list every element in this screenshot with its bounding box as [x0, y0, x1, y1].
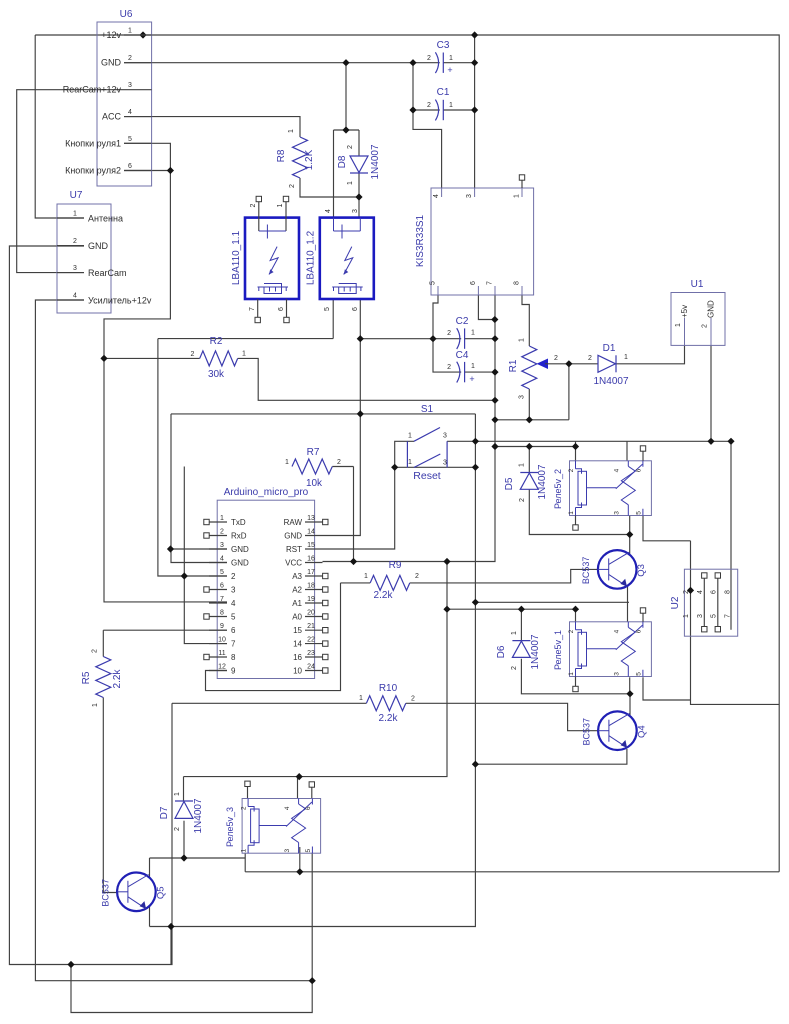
svg-text:3: 3 [519, 395, 526, 399]
svg-text:16: 16 [307, 556, 315, 563]
resistor R8 [276, 129, 315, 188]
wire relay3 pin3 lead [299, 847, 301, 872]
svg-text:3: 3 [697, 614, 704, 618]
svg-text:Arduino_micro_pro: Arduino_micro_pro [224, 487, 309, 498]
wire GND row above Arduino [171, 413, 475, 415]
wire U7 pin4 to relay3 pin5 row [35, 300, 312, 981]
svg-text:2: 2 [588, 355, 592, 362]
svg-text:12: 12 [218, 664, 226, 671]
svg-text:GND: GND [231, 559, 249, 568]
wire +5v rail [495, 446, 576, 448]
wire R5 pin1 to Q5 base [103, 698, 117, 893]
junction node (170.5,549.0) [167, 545, 174, 552]
svg-text:18: 18 [307, 583, 315, 590]
svg-text:+: + [469, 374, 474, 384]
svg-text:1: 1 [514, 194, 521, 198]
junction node (475.4,467.3) [472, 464, 479, 471]
svg-text:5: 5 [305, 849, 312, 853]
wire relay2 pin4 lead [626, 441, 628, 461]
svg-text:2: 2 [289, 184, 296, 188]
resistor R7 [285, 447, 341, 489]
svg-text:6: 6 [231, 626, 236, 635]
svg-text:2: 2 [519, 498, 526, 502]
svg-text:5: 5 [635, 511, 642, 515]
svg-text:C1: C1 [437, 87, 450, 98]
wire R8 pin2 to D8 pin1 node [300, 178, 359, 197]
svg-text:Кнопки руля2: Кнопки руля2 [65, 166, 121, 176]
svg-text:R9: R9 [389, 560, 402, 571]
wire +12v bus from U6 pin1 along top and right border [35, 35, 779, 872]
svg-text:1: 1 [347, 181, 354, 185]
svg-text:RAW: RAW [284, 518, 303, 527]
svg-text:D6: D6 [496, 645, 507, 658]
wire R7 pin2 lead [332, 466, 353, 468]
svg-text:2.2k: 2.2k [379, 713, 399, 724]
svg-text:1: 1 [174, 792, 181, 796]
switch S1 Reset [407, 404, 447, 482]
svg-text:3: 3 [614, 511, 621, 515]
wire row to LBA110_1.2 pin5 [158, 338, 333, 340]
wire to C2 pin2 [360, 338, 461, 340]
junction node (494.8,319.5) [491, 316, 498, 323]
wire D5 pin1 lead [528, 447, 530, 473]
connector U1 [671, 279, 725, 345]
connector U2 [670, 569, 738, 636]
wire GND drop to D8 branch [345, 63, 347, 130]
svg-text:1N4007: 1N4007 [530, 634, 541, 669]
junction node (474.6,35.0) [471, 31, 478, 38]
svg-text:GND: GND [231, 545, 249, 554]
wire to D1 pin2 [569, 363, 598, 365]
svg-text:1: 1 [92, 703, 99, 707]
svg-text:6: 6 [352, 307, 359, 311]
svg-text:1: 1 [408, 433, 412, 440]
svg-text:2: 2 [427, 55, 431, 62]
svg-text:14: 14 [293, 640, 302, 649]
wire relay3 pin1 lead [244, 853, 246, 872]
wire to LBA110_1.2 pin4 [333, 130, 335, 218]
relay Rele5v_3 pin2 square [245, 781, 250, 786]
svg-text:4: 4 [325, 209, 332, 213]
wire relay1 pin2 lead [575, 609, 577, 622]
junction node (71,964.5) [67, 961, 74, 968]
junction node (495,400.3) [491, 397, 498, 404]
svg-text:GND: GND [707, 300, 716, 318]
wire C2 pin1 to spine [465, 338, 495, 340]
svg-text:Кнопки руля1: Кнопки руля1 [65, 138, 121, 148]
svg-text:3: 3 [220, 542, 224, 549]
svg-text:Реле5v_2: Реле5v_2 [553, 469, 563, 509]
junction node (529.3,446.5) [526, 443, 533, 450]
svg-text:R7: R7 [307, 447, 320, 458]
svg-text:2: 2 [447, 364, 451, 371]
transistor Q4 BC537 [581, 711, 647, 750]
wire RearCam U6 pin3 to U7 pin3 [17, 90, 124, 273]
svg-text:1: 1 [364, 573, 368, 580]
svg-text:7: 7 [487, 281, 494, 285]
junction node (629.7,534.5) [626, 531, 633, 538]
wire D5 pin2 to relay2 pin3 node [529, 489, 629, 534]
svg-text:D1: D1 [603, 343, 616, 354]
svg-text:6: 6 [635, 629, 642, 633]
svg-text:1N4007: 1N4007 [537, 464, 548, 499]
wire Q4 emitter to spine [475, 749, 627, 764]
wire Q3 emitter row to spine [475, 601, 629, 603]
wire to Arduino pin3 GND [171, 548, 228, 550]
svg-text:2: 2 [568, 468, 575, 472]
svg-text:5: 5 [128, 136, 132, 143]
svg-text:2: 2 [702, 324, 709, 328]
wire S1 bottom row [395, 466, 476, 468]
relay Rele5v_3 pin6 square [309, 782, 314, 787]
svg-text:4: 4 [284, 806, 291, 810]
wire Q3 collector lead [629, 535, 631, 556]
svg-text:1.2K: 1.2K [304, 149, 315, 170]
svg-text:1N4007: 1N4007 [193, 798, 204, 833]
svg-text:BC537: BC537 [581, 718, 591, 746]
junction node (475.4,764.2) [472, 761, 479, 768]
svg-text:A1: A1 [292, 599, 302, 608]
junction node (447,609.2) [443, 606, 450, 613]
svg-text:U6: U6 [120, 9, 133, 20]
junction node (171,926.5) [167, 923, 174, 930]
wire Arduino pin12 to R9 pin1 [206, 583, 341, 691]
wire R10 pin2 to Q4 base [406, 703, 598, 730]
wire D8 pin2 lead [358, 130, 360, 156]
junction node (575.5,609.2) [572, 606, 579, 613]
svg-text:3: 3 [443, 460, 447, 467]
svg-text:1: 1 [242, 351, 246, 358]
svg-text:1: 1 [277, 203, 284, 207]
junction node (495,372.1) [491, 369, 498, 376]
svg-text:2: 2 [231, 572, 236, 581]
junction node (711,441.3) [707, 438, 714, 445]
svg-text:1: 1 [408, 459, 412, 466]
svg-text:1: 1 [128, 28, 132, 35]
svg-text:3: 3 [614, 672, 621, 676]
svg-text:8: 8 [220, 610, 224, 617]
node junction D8 branch [342, 126, 349, 133]
svg-text:6: 6 [278, 307, 285, 311]
wire VCC drop to D7 row [184, 562, 448, 777]
svg-text:8: 8 [724, 590, 731, 594]
svg-text:Q5: Q5 [155, 886, 166, 899]
svg-text:1: 1 [568, 511, 575, 515]
wire D7 pin1 lead [183, 777, 185, 801]
junction node (184.3,576.0) [181, 572, 188, 579]
wire U6 pin5 net to Arduino pin7 [104, 143, 227, 602]
svg-text:R2: R2 [210, 336, 223, 347]
svg-text:2.2k: 2.2k [112, 669, 123, 689]
svg-text:30k: 30k [208, 369, 225, 380]
svg-text:3: 3 [443, 433, 447, 440]
svg-text:U7: U7 [70, 190, 83, 201]
svg-text:3: 3 [466, 194, 473, 198]
wire to C1 pin2 [413, 109, 440, 111]
svg-text:1: 1 [568, 672, 575, 676]
relay Rele5v_2 pin1 square [575, 516, 577, 526]
transistor Q3 BC537 [581, 550, 647, 589]
svg-text:2: 2 [415, 573, 419, 580]
wire Q5 collector row [150, 857, 246, 859]
junction node (475.4,441.3) [472, 438, 479, 445]
svg-text:2: 2 [128, 55, 132, 62]
relay Rele5v_2 [553, 461, 651, 516]
wire Q3 emitter to relay1 pin4 [627, 586, 629, 622]
svg-text:1: 1 [624, 354, 628, 361]
relay Rele5v_3 [225, 799, 321, 854]
svg-text:1: 1 [359, 695, 363, 702]
wire ACC to R8 pin1 [124, 117, 300, 137]
wire R7 pin2 to VCC row [353, 467, 355, 562]
relay Rele5v_1 pin1 square [575, 677, 577, 688]
svg-text:U2: U2 [670, 596, 681, 609]
svg-text:R1: R1 [508, 359, 519, 372]
resistor R5 [81, 649, 123, 707]
svg-text:2: 2 [554, 355, 558, 362]
wire S1 pin3 bus right [447, 440, 731, 442]
svg-text:A3: A3 [292, 572, 302, 581]
svg-text:3: 3 [128, 82, 132, 89]
junction node (433,338.70000000000005) [429, 335, 436, 342]
wire KIS pin8 to R1 pin1 [522, 295, 529, 346]
svg-text:RST: RST [286, 545, 302, 554]
resistor R10 [359, 683, 415, 724]
svg-text:R5: R5 [81, 671, 92, 684]
svg-text:2: 2 [241, 806, 248, 810]
svg-text:2: 2 [191, 351, 195, 358]
svg-text:4: 4 [128, 109, 132, 116]
junction node (346,62.7) [342, 59, 349, 66]
wire to C4 pin2 [433, 339, 461, 372]
junction node (413,62.7) [409, 59, 416, 66]
junction node (184,858.0) [180, 854, 187, 861]
svg-text:6: 6 [305, 806, 312, 810]
svg-text:4: 4 [614, 468, 621, 472]
svg-text:R8: R8 [276, 149, 287, 162]
junction node (360.3,338.70000000000005) [357, 335, 364, 342]
svg-text:2: 2 [73, 238, 77, 245]
svg-text:10: 10 [293, 667, 302, 676]
svg-text:GND: GND [88, 241, 109, 251]
node junctions [139, 31, 146, 38]
svg-text:GND: GND [284, 532, 302, 541]
svg-text:1: 1 [519, 338, 526, 342]
svg-text:1: 1 [73, 211, 77, 218]
optocoupler LBA110_1.2 [306, 209, 374, 311]
relay Rele5v_1 pin6 square [642, 612, 644, 622]
junction node (475.4,602.3000000000001) [472, 599, 479, 606]
wire bus jog [575, 441, 577, 446]
wire D1 pin1 to U1 pin1 [617, 345, 685, 363]
capacitor C3 [427, 40, 453, 75]
svg-text:1: 1 [288, 129, 295, 133]
svg-text:RearCam: RearCam [88, 268, 127, 278]
svg-text:Усилитель+12v: Усилитель+12v [88, 296, 152, 306]
wire C3 pin1 to +12v drop [443, 62, 474, 64]
wire U1 pin2 to bus [710, 345, 712, 441]
svg-text:1: 1 [449, 55, 453, 62]
svg-text:ACC: ACC [102, 112, 122, 122]
junction node (568.9,363.8) [565, 360, 572, 367]
svg-text:24: 24 [307, 664, 315, 671]
svg-text:4: 4 [697, 590, 704, 594]
wire R1 pin2 wiper [545, 364, 569, 420]
svg-text:9: 9 [231, 667, 236, 676]
wire D6 row to relay1 pin2 [447, 608, 576, 610]
wire R2 pin2 lead [104, 357, 200, 359]
svg-text:4: 4 [614, 629, 621, 633]
svg-text:LBA110_1.2: LBA110_1.2 [306, 230, 317, 285]
svg-text:2: 2 [347, 145, 354, 149]
junction node (394.7,467.3) [391, 464, 398, 471]
svg-text:C2: C2 [456, 316, 469, 327]
svg-text:14: 14 [307, 529, 315, 536]
wire relay3 pin5 down and around [71, 853, 312, 1013]
junction node (495,338.70000000000005) [491, 335, 498, 342]
wire U2 column to +12v border [691, 541, 780, 705]
wire GND bus U6 pin2 to C3 [124, 62, 440, 64]
svg-text:+: + [447, 65, 452, 75]
diode D5 [504, 463, 548, 502]
svg-text:BC537: BC537 [581, 557, 591, 585]
svg-text:GND: GND [101, 58, 122, 68]
wire R9 pin1 lead [341, 582, 371, 584]
wire relay3 row to +12v border [245, 871, 779, 873]
wire net row down to Arduino pin5 [158, 339, 227, 576]
svg-text:20: 20 [307, 610, 315, 617]
svg-text:RxD: RxD [231, 532, 247, 541]
svg-text:VCC: VCC [285, 559, 302, 568]
wire relay2 pin3 lead [629, 516, 631, 535]
junction node (312.2,980.7) [309, 977, 316, 984]
junction node (529.3,419.8) [526, 416, 533, 423]
wire D6 pin2 to relay1 pin3 node [521, 659, 630, 694]
capacitor C4 [447, 350, 475, 384]
wire C4 pin1 to spine [465, 371, 495, 373]
svg-text:2: 2 [174, 827, 181, 831]
wire R7 pin1 down to Arduino pin10 [184, 467, 227, 644]
svg-text:1: 1 [683, 614, 690, 618]
svg-text:1: 1 [471, 330, 475, 337]
svg-text:1N4007: 1N4007 [593, 376, 628, 387]
svg-text:4: 4 [231, 599, 236, 608]
wire LBA110_1.2 pin6 to Arduino pin14 GND [323, 299, 361, 536]
junction node (104,358.40000000000003) [100, 355, 107, 362]
svg-text:BC537: BC537 [100, 879, 110, 907]
resistor R9 [364, 560, 419, 601]
junction node (731,441.3) [727, 438, 734, 445]
svg-text:+5v: +5v [680, 305, 689, 318]
junction node (521.4,609.2) [518, 606, 525, 613]
svg-text:7: 7 [220, 596, 224, 603]
svg-text:5: 5 [430, 281, 437, 285]
svg-text:KIS3R33S1: KIS3R33S1 [415, 214, 426, 267]
svg-text:5: 5 [324, 307, 331, 311]
wire relay3 pin2 stub [247, 786, 249, 798]
wire R9 pin2 to Q3 base [410, 569, 598, 583]
junction node (474.6,110.0) [471, 106, 478, 113]
svg-text:Q4: Q4 [636, 725, 647, 738]
junction node (474.6,62.7) [471, 59, 478, 66]
svg-text:1: 1 [519, 463, 526, 467]
svg-text:2.2k: 2.2k [374, 590, 394, 601]
junction node (575.5,446.5) [572, 443, 579, 450]
svg-text:2: 2 [92, 649, 99, 653]
wire LBA110_1.2 pin5 lead [332, 299, 334, 339]
svg-text:2: 2 [250, 203, 257, 207]
svg-text:5: 5 [231, 613, 236, 622]
relay Rele5v_1 [553, 622, 651, 677]
wire +12v drop to KIS pin3 [474, 35, 476, 188]
svg-text:S1: S1 [421, 404, 434, 415]
svg-text:6: 6 [635, 468, 642, 472]
wire KIS pin6 down [478, 295, 495, 320]
svg-text:5: 5 [710, 614, 717, 618]
svg-text:7: 7 [231, 640, 236, 649]
svg-text:15: 15 [307, 542, 315, 549]
wire U6 pin6 to net [124, 170, 170, 172]
svg-text:3: 3 [352, 209, 359, 213]
wire Q5 collector lead [149, 858, 151, 878]
svg-text:Реле5v_1: Реле5v_1 [553, 630, 563, 670]
svg-text:8: 8 [231, 653, 236, 662]
svg-text:Антенна: Антенна [88, 214, 123, 224]
junction node (447,561.5) [443, 558, 450, 565]
wire R2 pin1 to +5v spine [238, 358, 495, 400]
svg-text:5: 5 [635, 672, 642, 676]
junction node (630,693.8000000000001) [626, 690, 633, 697]
wire R1 lower row [495, 419, 569, 421]
resistor R2 [191, 336, 247, 380]
wire cap GND side down to KIS pin4 [413, 63, 442, 188]
connector U6 [63, 9, 152, 186]
svg-text:7: 7 [724, 614, 731, 618]
connector U7 [57, 190, 152, 313]
svg-text:15: 15 [293, 626, 302, 635]
wire Q5 emitter lead [149, 906, 151, 927]
svg-text:7: 7 [249, 307, 256, 311]
svg-text:3: 3 [231, 586, 236, 595]
svg-text:2: 2 [568, 629, 575, 633]
svg-text:2: 2 [411, 696, 415, 703]
wire relay2 pin5 out [643, 516, 691, 541]
junction node (360.3,413.90000000000003) [357, 410, 364, 417]
svg-text:19: 19 [307, 596, 315, 603]
wire relay2 pin2 lead [575, 447, 577, 461]
svg-text:6: 6 [470, 281, 477, 285]
svg-text:LBA110_1.1: LBA110_1.1 [231, 230, 242, 285]
transistor Q5 BC537 [100, 873, 166, 912]
wire R5 pin2 lead [102, 630, 104, 656]
svg-text:1: 1 [220, 515, 224, 522]
wire KIS pin5 down [433, 295, 438, 339]
svg-text:2: 2 [447, 330, 451, 337]
relay Rele5v_2 pin6 square [642, 450, 644, 461]
IC Arduino_micro_pro [204, 487, 328, 679]
capacitor C1 [427, 87, 453, 120]
svg-text:1: 1 [511, 631, 518, 635]
junction node (495,419.8) [491, 416, 498, 423]
wire relay3 pin6 stub [311, 787, 313, 799]
svg-text:6: 6 [710, 590, 717, 594]
svg-text:R10: R10 [379, 683, 398, 694]
svg-text:6: 6 [220, 583, 224, 590]
wire +12v down to U7 pin1 [35, 35, 84, 218]
trimmer R1 [508, 338, 558, 399]
svg-text:2: 2 [511, 666, 518, 670]
junction node (359,197.0) [355, 193, 362, 200]
